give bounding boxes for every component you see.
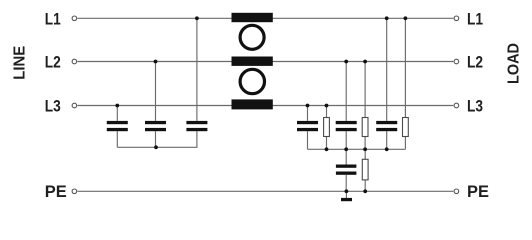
resistor R3 <box>403 118 409 137</box>
terminal L3 line side <box>72 103 77 108</box>
junction L1-Cy3 <box>385 16 389 20</box>
capacitor Cx3 <box>186 121 207 131</box>
svg-text:L2: L2 <box>45 53 61 72</box>
choke core circle lower <box>240 69 264 93</box>
wire PE horizontal <box>78 190 454 192</box>
wire Cy4 bottom to PE <box>345 175 347 192</box>
wire L2 horizontal <box>78 61 454 63</box>
junction PE-Cy4-ground <box>345 189 349 193</box>
wire L1 horizontal <box>78 17 454 19</box>
svg-text:L1: L1 <box>45 10 61 29</box>
ground <box>341 198 352 201</box>
svg-text:L2: L2 <box>467 53 483 72</box>
svg-text:PE: PE <box>45 182 67 201</box>
wire Cy3 bottom to right rail <box>386 131 388 149</box>
wire rail drop to R4 <box>364 149 366 159</box>
wire Cy2 bottom to right rail <box>345 131 347 149</box>
choke winding L3 phase C <box>232 99 273 109</box>
capacitor Cy3 <box>376 121 397 131</box>
svg-text:L1: L1 <box>467 10 483 29</box>
choke core circle upper <box>240 25 264 49</box>
ground stub wire <box>345 191 347 198</box>
junction L1-Cx3 <box>195 16 199 20</box>
choke winding L1 phase A <box>232 13 273 22</box>
wire L2 drop to Cy2 <box>345 62 347 121</box>
junction right rail Cy2-Cy4 <box>344 147 348 151</box>
capacitor Cy1 <box>297 121 318 131</box>
junction L2-Cx2 <box>154 60 158 64</box>
wire L1 drop to Cx3 <box>196 18 198 121</box>
capacitor Cy4 <box>336 165 357 175</box>
svg-text:L3: L3 <box>45 97 61 116</box>
terminal L2 line side <box>72 59 77 64</box>
terminal L2 load side <box>454 59 459 64</box>
terminal PE load side <box>454 189 459 194</box>
junction L1-R3 <box>404 16 408 20</box>
junction PE-R4 <box>363 189 367 193</box>
wire Cy1 bottom to right rail <box>307 131 309 149</box>
wire L3 drop to R1 <box>326 106 328 118</box>
junction left star rail center <box>154 145 158 149</box>
wire right star rail <box>308 148 406 150</box>
junction right rail Cy3 <box>385 147 389 151</box>
wire rail drop to Cy4 <box>345 149 347 164</box>
capacitor Cx2 <box>145 121 166 131</box>
junction L3-Cx1 <box>115 104 119 108</box>
wire L1 drop to Cy3 <box>386 18 388 121</box>
capacitor Cy2 <box>336 121 357 131</box>
wire R4 bottom to PE <box>364 180 366 191</box>
choke winding L2 phase B <box>232 57 273 66</box>
resistor R2 <box>362 118 368 137</box>
svg-text:LOAD: LOAD <box>505 43 522 84</box>
wire R3 bottom to right rail <box>404 137 406 150</box>
wire Cx2 bottom to star rail <box>155 131 157 147</box>
wire L3 drop to Cx1 <box>116 106 118 121</box>
junction L2-R2 <box>363 60 367 64</box>
wire L3 horizontal <box>78 105 454 107</box>
resistor R4 <box>362 159 368 180</box>
junction right rail R1 <box>325 147 329 151</box>
terminal L1 load side <box>454 16 459 21</box>
wire R1 bottom to right rail <box>326 137 328 150</box>
svg-text:L3: L3 <box>467 97 483 116</box>
wire L1 drop to R3 <box>404 18 406 117</box>
svg-text:LINE: LINE <box>11 46 28 80</box>
terminal PE line side <box>72 189 77 194</box>
wire Cx1 bottom to star rail <box>116 131 118 147</box>
terminal L1 line side <box>72 16 77 21</box>
junction L2-Cy2 <box>344 60 348 64</box>
junction L3-R1 <box>325 104 329 108</box>
junction right rail R2-R4 <box>363 147 367 151</box>
wire L3 drop to Cy1 <box>307 106 309 121</box>
wire L2 drop to Cx2 <box>155 62 157 121</box>
svg-text:PE: PE <box>467 182 489 201</box>
wire R2 bottom to right rail <box>364 137 366 150</box>
resistor R1 <box>324 118 330 137</box>
capacitor Cx1 <box>107 121 128 131</box>
wire Cx3 bottom to star rail <box>196 131 198 147</box>
wire L2 drop to R2 <box>364 62 366 118</box>
wire left star rail <box>117 146 197 148</box>
junction L3-Cy1 <box>306 104 310 108</box>
terminal L3 load side <box>454 103 459 108</box>
